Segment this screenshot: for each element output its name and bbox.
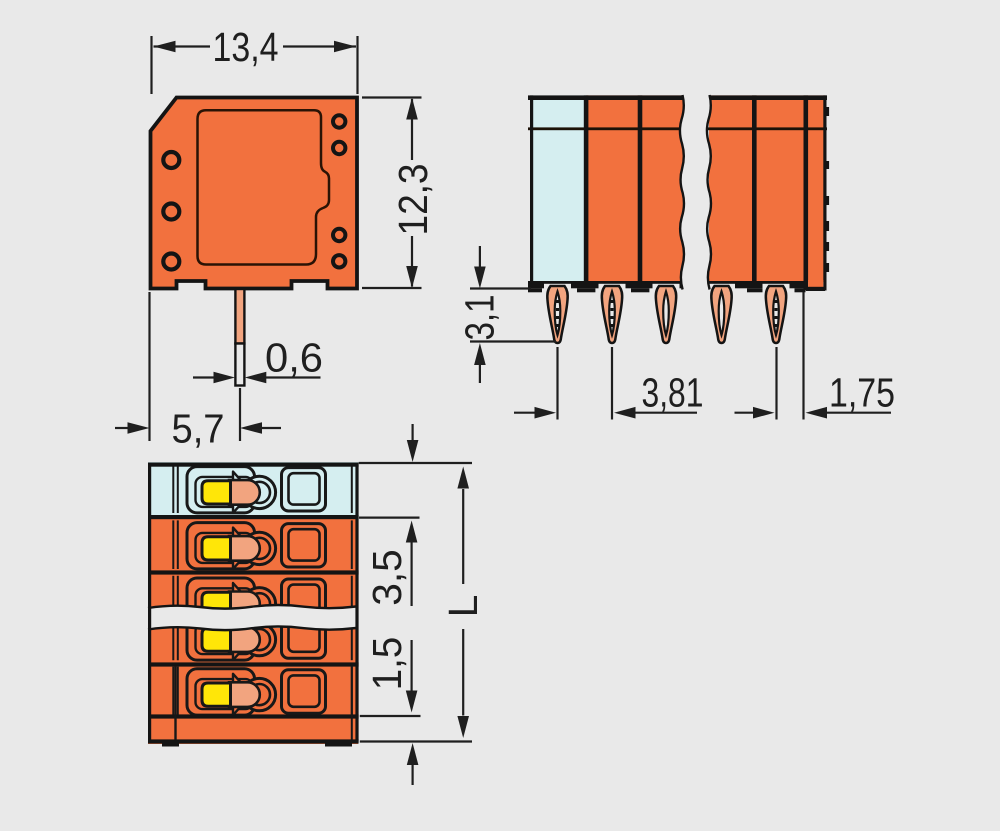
svg-text:5,7: 5,7 [172, 406, 225, 452]
svg-text:3,1: 3,1 [457, 295, 503, 341]
svg-text:12,3: 12,3 [390, 164, 436, 236]
svg-text:13,4: 13,4 [213, 24, 279, 70]
svg-text:3,5: 3,5 [364, 549, 410, 606]
svg-text:0,6: 0,6 [265, 335, 323, 381]
svg-text:1,5: 1,5 [364, 637, 410, 691]
svg-text:1,75: 1,75 [829, 370, 895, 416]
svg-text:3,81: 3,81 [642, 370, 704, 416]
svg-text:L: L [440, 595, 486, 618]
